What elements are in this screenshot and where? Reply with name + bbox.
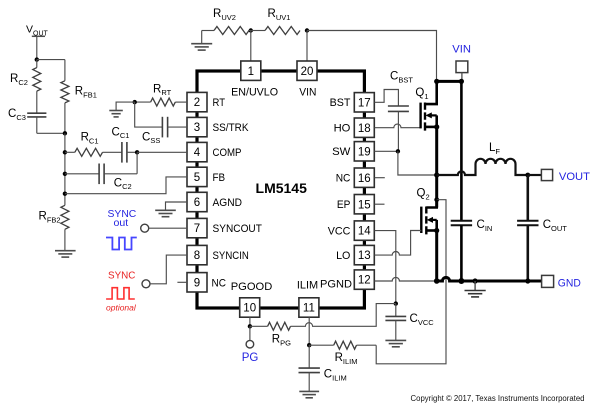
transistor Q2 (417, 188, 437, 235)
copyright note (411, 393, 585, 403)
pin 13 LO (336, 245, 374, 264)
resistor RRT (135, 83, 187, 106)
svg-text:VIN: VIN (452, 43, 471, 55)
pin 9 NC (187, 273, 226, 292)
ground (RFB2) (55, 251, 76, 257)
svg-text:PG: PG (242, 352, 259, 364)
node (63, 172, 67, 176)
wire (37, 59, 65, 61)
svg-text:VIN: VIN (299, 86, 316, 98)
svg-text:NC: NC (212, 277, 227, 289)
svg-text:PGND: PGND (320, 278, 352, 290)
svg-text:HO: HO (334, 123, 351, 135)
node (133, 100, 137, 104)
pin 15 EP stub (375, 203, 385, 205)
label optional (106, 302, 137, 312)
capacitor CSS (135, 102, 187, 145)
pin 10 PGOOD (231, 281, 273, 317)
label SYNC optional (108, 269, 136, 281)
svg-text:16: 16 (358, 173, 371, 185)
resistor RUV1 (249, 8, 300, 35)
node: VOUT node (525, 173, 530, 178)
wire (398, 151, 437, 175)
wire (116, 102, 135, 110)
svg-text:BST: BST (330, 97, 351, 109)
waveform sync out (106, 238, 137, 250)
wire ILIM pin (308, 317, 310, 345)
svg-text:2: 2 (194, 97, 200, 109)
node: Q2 source (434, 228, 439, 233)
waveform sync in (106, 288, 135, 299)
pin 15 EP (337, 195, 374, 214)
wire AGND (166, 202, 188, 210)
ground (R_UV2 return) (191, 31, 212, 51)
svg-text:15: 15 (358, 199, 371, 211)
wire LO to Q2 gate (375, 231, 422, 256)
wire SW from pin 19 (375, 150, 398, 152)
svg-text:9: 9 (194, 277, 200, 289)
pin 4 COMP (187, 142, 242, 161)
wire ILIM sense (376, 200, 446, 364)
svg-text:1: 1 (248, 66, 254, 78)
ground (CVCC) (385, 340, 406, 346)
svg-text:7: 7 (194, 223, 200, 235)
svg-text:LM5145: LM5145 (256, 180, 308, 196)
svg-text:19: 19 (358, 146, 371, 158)
node (396, 149, 400, 153)
pin 16 NC (336, 168, 375, 187)
ground (CILIM) (299, 391, 319, 397)
pin 8 SYNCIN (187, 245, 249, 264)
wire: comp rail (64, 133, 66, 205)
node (248, 324, 252, 328)
svg-text:14: 14 (358, 226, 371, 238)
node (434, 79, 464, 84)
node (135, 150, 139, 154)
inductor LF (437, 142, 528, 175)
pin 11 ILIM (297, 279, 319, 317)
svg-text:17: 17 (358, 97, 371, 109)
svg-text:11: 11 (303, 303, 315, 315)
svg-text:SW: SW (332, 146, 351, 158)
terminal SYNCIN (142, 255, 187, 288)
terminal VOUT (528, 169, 590, 183)
svg-text:20: 20 (301, 66, 314, 78)
svg-text:4: 4 (194, 147, 201, 159)
svg-text:5: 5 (194, 172, 200, 184)
svg-text:PGOOD: PGOOD (231, 281, 273, 293)
svg-text:RT: RT (213, 97, 226, 109)
resistor RPG (250, 304, 396, 348)
label SYNC out (108, 208, 137, 229)
pin 17 BST (330, 93, 375, 112)
pin 7 SYNCOUT (187, 218, 262, 237)
svg-text:18: 18 (358, 123, 371, 135)
resistor RFB1 (61, 60, 97, 134)
svg-text:10: 10 (243, 303, 256, 315)
svg-text:SS/TRK: SS/TRK (213, 122, 250, 134)
svg-text:6: 6 (194, 197, 200, 209)
resistor RFB2 (39, 205, 69, 250)
pin 3 SS/TRK (187, 117, 249, 136)
svg-text:AGND: AGND (213, 197, 243, 209)
svg-text:SYNC: SYNC (108, 269, 136, 281)
pin 20 VIN (297, 61, 317, 98)
node: SW (434, 172, 439, 177)
svg-text:12: 12 (358, 275, 371, 287)
pin 14 VCC (328, 221, 375, 240)
node: EN/UVLO divider tap (249, 28, 253, 32)
IC U1 LM5145 body (197, 71, 364, 308)
svg-text:LO: LO (336, 250, 350, 262)
resistor RC1 (65, 132, 122, 157)
ground (power rail) (465, 281, 486, 297)
wire: VIN rail link (437, 80, 462, 83)
pin 18 HO (334, 118, 375, 137)
wire HO to Q1 gate (375, 124, 421, 128)
wire: SW column (435, 127, 438, 208)
node (63, 131, 67, 135)
node: VIN sense (305, 28, 309, 32)
resistor RUV2 (202, 8, 249, 35)
resistor RC2 (10, 60, 41, 114)
svg-text:13: 13 (358, 250, 371, 262)
capacitor CIN (451, 81, 493, 281)
svg-text:EN/UVLO: EN/UVLO (231, 86, 278, 98)
svg-text:EP: EP (337, 199, 351, 211)
svg-text:COMP: COMP (213, 147, 242, 159)
node: Vout sense (35, 57, 39, 61)
svg-text:3: 3 (194, 122, 200, 134)
wire to pin 1 (250, 31, 252, 62)
capacitor CC2 (65, 164, 137, 192)
terminal GND (542, 275, 581, 289)
pin 9 NC stub (177, 281, 187, 283)
wire PGOOD (249, 317, 251, 326)
svg-text:Copyright © 2017, Texas Instru: Copyright © 2017, Texas Instruments Inco… (411, 393, 585, 403)
node (394, 301, 398, 305)
pin 12 PGND (320, 270, 374, 290)
capacitor CVCC (385, 304, 434, 341)
wire to FB pin 5 (65, 177, 187, 194)
capacitor CC1 (112, 126, 138, 162)
node: Q1 source (434, 124, 439, 129)
svg-text:GND: GND (558, 278, 581, 290)
capacitor CC3 (8, 108, 46, 133)
terminal VOUT (feedback input) (26, 24, 49, 60)
node (63, 192, 67, 196)
svg-text:NC: NC (336, 173, 351, 185)
ground (RT) (109, 111, 123, 117)
terminal PG (242, 326, 259, 364)
node (307, 343, 311, 347)
pin 6 AGND (187, 192, 242, 211)
wire to pin 20 (306, 31, 308, 62)
node: ILIM tap (434, 197, 439, 202)
capacitor CBST (375, 71, 414, 152)
capacitor COUT (517, 175, 567, 281)
svg-text:out: out (114, 217, 129, 229)
wire: power ground rail (437, 277, 542, 281)
pin 2 RT (187, 92, 225, 111)
wire to COMP pin 4 (137, 151, 187, 153)
capacitor CILIM (299, 345, 347, 391)
wire (136, 152, 138, 174)
svg-text:SYNCIN: SYNCIN (213, 250, 249, 262)
node (63, 150, 67, 154)
node (434, 278, 531, 284)
resistor RILIM (309, 341, 376, 366)
wire VCC (375, 231, 396, 304)
pin 5 FB (187, 167, 225, 186)
svg-text:VCC: VCC (328, 226, 351, 238)
svg-text:SYNCOUT: SYNCOUT (213, 223, 263, 235)
wire: top VIN rail (307, 31, 437, 82)
svg-text:VOUT: VOUT (559, 171, 590, 183)
svg-text:FB: FB (213, 172, 226, 184)
transistor Q1 (415, 81, 436, 130)
wire: Q2 source to PGND rail (435, 231, 438, 282)
svg-text:optional: optional (106, 302, 137, 312)
ground (AGND) (155, 210, 176, 216)
wire PGND (375, 277, 437, 281)
terminal SYNCOUT (141, 224, 187, 232)
pin 1 EN/UVLO (231, 61, 278, 98)
terminal VIN (452, 43, 471, 81)
svg-text:8: 8 (194, 250, 200, 262)
pin 19 SW (332, 142, 374, 161)
pin 16 NC stub (375, 177, 385, 179)
svg-text:ILIM: ILIM (297, 279, 318, 291)
wire (37, 132, 65, 134)
